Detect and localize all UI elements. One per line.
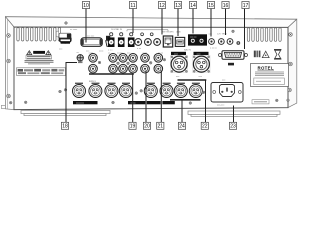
toslink jack 1 dot xyxy=(110,33,113,36)
svg-text:BAL IN: BAL IN xyxy=(184,49,191,52)
svg-text:xx xxxx: xx xxxx xyxy=(70,29,78,31)
svg-text:xxx xxx: xxx xxx xyxy=(190,36,197,38)
cert icon hourglass xyxy=(275,50,281,58)
svg-text:21: 21 xyxy=(158,124,164,130)
cert icon square xyxy=(254,51,261,58)
screw bottom center xyxy=(112,101,115,104)
left side face xyxy=(5,17,14,110)
callout box 22 xyxy=(201,122,208,129)
rca in 6 top xyxy=(154,54,163,63)
callout line 19 xyxy=(132,74,134,122)
rca screw c xyxy=(127,62,130,65)
chassis top face xyxy=(5,17,296,28)
ground terminal xyxy=(77,52,84,63)
rca in 1 top xyxy=(89,54,98,63)
svg-text:12: 12 xyxy=(159,3,165,9)
screw bottom right small 2 xyxy=(287,99,290,102)
callout box 15 xyxy=(207,2,214,9)
coax digital 3 xyxy=(154,39,161,46)
rca screw b xyxy=(117,62,120,65)
svg-text:17: 17 xyxy=(243,3,249,9)
black strip under xlr 4 xyxy=(162,101,174,104)
screw under xlr right xyxy=(189,102,192,105)
callout box 16 xyxy=(222,2,229,9)
rca in 4 top xyxy=(129,54,138,63)
svg-text:xxx-xxx: xxx-xxx xyxy=(217,105,225,107)
screw right xlr row xyxy=(202,91,205,94)
rca in 2 top xyxy=(109,54,118,63)
toslink optical 1 xyxy=(108,37,115,47)
labels above xlr outputs xyxy=(75,83,200,84)
callout box 23 xyxy=(229,122,236,129)
callout line 10 xyxy=(85,9,87,43)
chassis back-top edge xyxy=(5,17,296,20)
rca in 3 bottom xyxy=(119,64,128,73)
xlr out 2 xyxy=(89,85,102,98)
svg-text:24: 24 xyxy=(179,124,185,130)
svg-text:xxx xxx: xxx xxx xyxy=(87,35,95,37)
callout box 21 xyxy=(157,122,164,129)
svg-text:16: 16 xyxy=(223,3,229,9)
svg-text:USB: USB xyxy=(176,32,181,34)
svg-text:22: 22 xyxy=(202,124,208,130)
svg-text:23: 23 xyxy=(230,124,236,130)
callout line 21 xyxy=(160,71,162,123)
svg-text:xxxx: xxxx xyxy=(197,53,201,55)
small connector assembly left xyxy=(56,31,71,44)
toslink optical 2 xyxy=(118,37,125,47)
RS232 DB9 xyxy=(219,51,248,59)
callout box 14 xyxy=(189,2,196,9)
xlr out 5 xyxy=(144,85,157,98)
callout box 17 xyxy=(242,2,249,9)
toslink optical 3 xyxy=(128,37,135,47)
rca in 5 bottom xyxy=(141,64,150,73)
small jack dark xyxy=(236,41,240,45)
svg-text:NETWORK: NETWORK xyxy=(163,32,175,34)
xlr out 3 xyxy=(105,85,118,98)
black strip under xlr 3 xyxy=(147,101,161,104)
callout line 11 xyxy=(132,9,134,33)
rca in 1 bottom xyxy=(89,64,98,73)
svg-text:11: 11 xyxy=(130,3,135,9)
svg-text:13: 13 xyxy=(175,3,181,9)
antenna black box xyxy=(188,34,207,45)
svg-text:xxxx x: xxxx x xyxy=(89,80,96,83)
xlr balanced in 1 xyxy=(171,56,188,73)
callout bar 22 xyxy=(178,79,207,81)
svg-text:DIGITAL IN: DIGITAL IN xyxy=(111,28,122,31)
xlr out 8 xyxy=(189,85,202,98)
right vent grille xyxy=(247,28,281,42)
callout bar 24 xyxy=(170,99,201,101)
serial label xyxy=(252,100,269,104)
left vent grille xyxy=(17,28,61,42)
rca in 2 bottom xyxy=(109,64,118,73)
svg-text:19: 19 xyxy=(130,124,136,130)
panel face xyxy=(14,27,288,110)
callout box 10 xyxy=(82,2,89,9)
rotel label box xyxy=(251,64,289,87)
callout line 24 xyxy=(181,100,183,123)
screw left of xlr row b xyxy=(64,89,67,92)
xlr out 1 xyxy=(73,85,86,98)
screw bottom right small 1 xyxy=(276,99,279,102)
callout line 17 xyxy=(244,9,246,49)
warning label xyxy=(25,51,54,64)
screw right face top xyxy=(289,33,293,37)
12V trigger jack 2 xyxy=(227,39,233,45)
rca in 5 top xyxy=(141,54,150,63)
callout box 20 xyxy=(143,122,150,129)
screw mid xlr row b xyxy=(140,90,143,93)
screw right face low xyxy=(288,88,292,92)
xlr balanced in 2 xyxy=(193,56,210,73)
svg-text:15: 15 xyxy=(208,3,214,9)
rca screw a xyxy=(98,61,101,64)
rca in 3 top xyxy=(119,54,128,63)
right foot bracket xyxy=(188,111,280,116)
RS232 small label xyxy=(228,63,234,66)
chassis left top diagonal xyxy=(5,17,14,27)
callout line 20 xyxy=(145,71,147,123)
callout line 13 xyxy=(177,9,179,36)
svg-text:x xx xx: x xx xx xyxy=(210,48,218,50)
balanced in label 2 xyxy=(194,52,209,55)
xlr out 7 xyxy=(174,85,187,98)
network rj45 xyxy=(163,36,172,47)
coax dot a xyxy=(141,33,144,36)
screw top face xyxy=(65,22,68,25)
digital section bracket xyxy=(127,30,168,32)
callout line 14 xyxy=(192,9,194,34)
usb port xyxy=(175,37,184,46)
callout box 12 xyxy=(158,2,165,9)
callout box 18 xyxy=(61,122,68,129)
balanced in label 1 xyxy=(171,52,186,55)
coax digital 1 xyxy=(135,39,142,46)
black strip under xlr 2 xyxy=(128,101,145,104)
svg-text:xxxxxxxx: xxxxxxxx xyxy=(76,103,84,105)
IEC power inlet xyxy=(211,83,243,103)
svg-text:ROTEL: ROTEL xyxy=(258,65,274,70)
callout line 15 xyxy=(210,9,212,37)
wide link connector xyxy=(81,38,102,47)
svg-text:14: 14 xyxy=(190,3,196,9)
coax dot b xyxy=(150,33,153,36)
screw left top xyxy=(7,34,11,38)
toslink jack 3 dot xyxy=(130,33,133,36)
callout box 24 xyxy=(178,122,185,129)
screw bottom small 2 xyxy=(24,101,27,104)
coax digital 2 xyxy=(145,39,152,46)
cert icon triangle xyxy=(262,51,269,57)
left edge flange line xyxy=(6,19,8,109)
callout box 13 xyxy=(174,2,181,9)
rca screw d xyxy=(149,62,152,65)
svg-text:20: 20 xyxy=(144,124,150,130)
svg-text:xxxx: xxxx xyxy=(174,53,178,55)
screw bottom small 1 xyxy=(9,101,12,104)
callout line 12 xyxy=(161,9,163,35)
spec label strip xyxy=(17,68,66,76)
callout line 23 xyxy=(233,106,235,123)
IR in jack xyxy=(209,39,215,45)
callout box 19 xyxy=(129,122,136,129)
rca screw e xyxy=(163,58,166,61)
svg-text:10: 10 xyxy=(83,3,89,9)
callout bar 19 xyxy=(89,73,134,75)
xlr out 4 xyxy=(119,85,132,98)
screw near usb xyxy=(232,30,235,33)
12V trigger jack 1 xyxy=(218,39,224,45)
left bottom notch xyxy=(1,105,5,108)
xlr out 6 xyxy=(160,85,173,98)
left foot bracket xyxy=(21,110,110,115)
rca in 4 bottom xyxy=(129,64,138,73)
toslink jack 2 dot xyxy=(120,33,123,36)
screw left bottom xyxy=(7,94,11,98)
screw mid xlr row a xyxy=(135,92,138,95)
right side face xyxy=(288,19,297,107)
black strip under xlr 1 xyxy=(73,101,98,104)
callout line 22 xyxy=(205,80,207,122)
callout box 11 xyxy=(129,2,136,9)
screw left of xlr row a xyxy=(59,90,62,93)
rca in 6 bottom xyxy=(154,64,163,73)
svg-text:18: 18 xyxy=(62,124,68,130)
screw left mid xyxy=(7,59,11,63)
chassis right top diagonal xyxy=(288,19,297,27)
screw right face mid xyxy=(289,62,293,66)
small trapezoid connector xyxy=(106,36,111,47)
callout line 18 xyxy=(66,63,77,123)
callout line 16 xyxy=(225,9,227,35)
